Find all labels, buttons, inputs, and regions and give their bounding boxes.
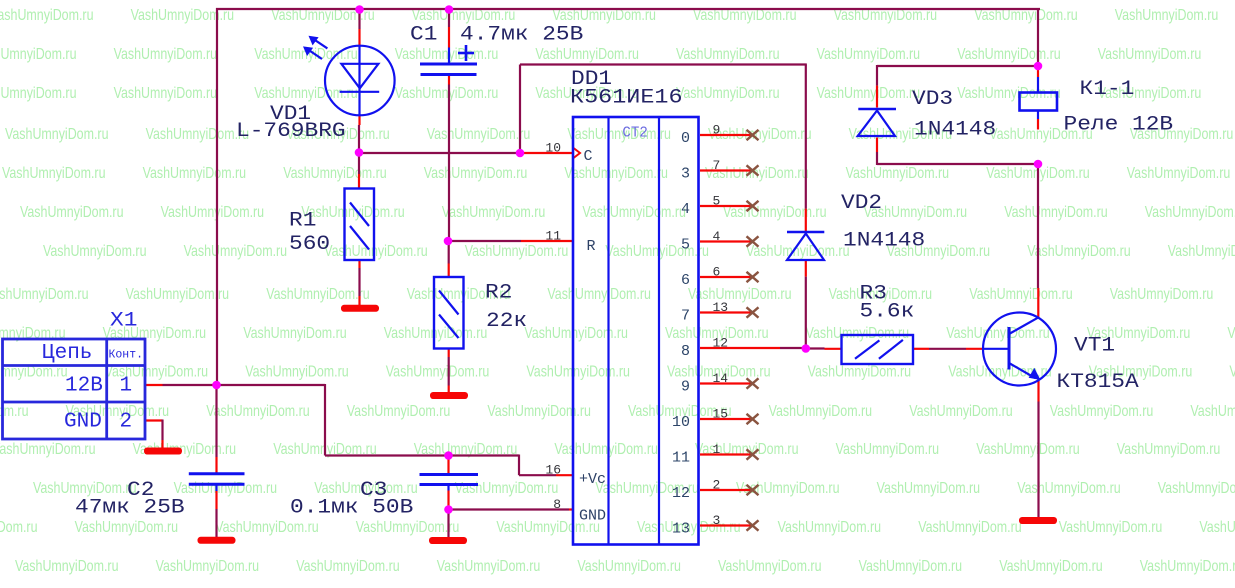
svg-text:VashUmnyiDom.ru: VashUmnyiDom.ru	[143, 165, 247, 182]
resistor R1	[345, 189, 375, 261]
svg-text:VashUmnyiDom.ru: VashUmnyiDom.ru	[1017, 480, 1120, 497]
svg-text:VashUmnyiDom.ru: VashUmnyiDom.ru	[1229, 364, 1235, 381]
node D output8/VD2/R3	[802, 344, 811, 353]
wire left rail	[216, 8, 218, 385]
IC function label CT2	[622, 125, 648, 142]
wire LED to node A	[358, 115, 361, 153]
svg-text:5: 5	[681, 237, 690, 254]
svg-text:VashUmnyiDom.ru: VashUmnyiDom.ru	[918, 519, 1022, 536]
svg-text:13: 13	[672, 521, 690, 538]
pin number 2	[713, 478, 721, 493]
output 13 label	[672, 521, 690, 538]
wire node A to node B horizontal	[359, 152, 520, 154]
label pin 1 cell	[120, 375, 133, 398]
label K1-1	[1080, 78, 1135, 101]
no-connect X on output 4	[747, 201, 759, 211]
svg-text:VashUmnyiDom.ru: VashUmnyiDom.ru	[442, 204, 546, 221]
svg-text:VashUmnyiDom.ru: VashUmnyiDom.ru	[356, 519, 460, 536]
svg-text:VT1: VT1	[1074, 335, 1115, 358]
output 12 stub wire	[700, 489, 752, 491]
svg-text:VashUmnyiDom.ru: VashUmnyiDom.ru	[1127, 165, 1231, 182]
svg-text:0.1мк 50В: 0.1мк 50В	[290, 497, 413, 520]
output 12 label	[672, 485, 690, 502]
svg-text:VashUmnyiDom.ru: VashUmnyiDom.ru	[395, 85, 499, 102]
svg-text:VashUmnyiDom.ru: VashUmnyiDom.ru	[455, 480, 559, 497]
svg-text:VashUmnyiDom.ru: VashUmnyiDom.ru	[1110, 286, 1214, 303]
svg-text:VashUmnyiDom.ru: VashUmnyiDom.ru	[20, 204, 124, 221]
svg-text:VashUmnyiDom.ru: VashUmnyiDom.ru	[245, 364, 349, 381]
wire VD3 lower lead	[876, 138, 878, 166]
svg-text:R: R	[587, 238, 596, 255]
svg-text:VashUmnyiDom.ru: VashUmnyiDom.ru	[1227, 325, 1235, 342]
output 9 stub wire	[700, 382, 752, 384]
svg-text:VashUmnyiDom.ru: VashUmnyiDom.ru	[283, 165, 387, 182]
svg-text:VashUmnyiDom.ru: VashUmnyiDom.ru	[1098, 46, 1202, 63]
svg-text:C: C	[584, 148, 593, 165]
svg-text:2: 2	[120, 411, 133, 434]
svg-text:VashUmnyiDom.ru: VashUmnyiDom.ru	[0, 7, 94, 24]
svg-text:К561ИЕ16: К561ИЕ16	[570, 87, 683, 110]
label C3 value	[290, 497, 413, 520]
label relay type	[1064, 114, 1174, 137]
svg-text:VashUmnyiDom.ru: VashUmnyiDom.ru	[254, 85, 358, 102]
wire R3 to VT1 base	[913, 348, 984, 350]
pin label +Vc	[579, 471, 606, 488]
svg-text:VashUmnyiDom.ru: VashUmnyiDom.ru	[0, 46, 77, 63]
svg-text:VashUmnyiDom.ru: VashUmnyiDom.ru	[0, 403, 29, 420]
svg-text:16: 16	[545, 463, 561, 478]
wire node D to R3	[806, 347, 842, 349]
svg-text:VashUmnyiDom.ru: VashUmnyiDom.ru	[778, 519, 882, 536]
svg-text:VashUmnyiDom.ru: VashUmnyiDom.ru	[1158, 480, 1235, 497]
diode VD2 1N4148	[787, 232, 824, 260]
output 13 stub wire	[700, 524, 752, 526]
pin label R	[587, 238, 596, 255]
wire node B riser	[519, 65, 521, 154]
svg-text:VashUmnyiDom.ru: VashUmnyiDom.ru	[817, 46, 921, 63]
wire VD2 upper lead	[805, 65, 807, 232]
output 0 stub wire	[700, 134, 752, 136]
svg-text:VashUmnyiDom.ru: VashUmnyiDom.ru	[75, 519, 179, 536]
svg-text:6: 6	[681, 272, 690, 289]
svg-text:VashUmnyiDom.ru: VashUmnyiDom.ru	[688, 286, 792, 303]
svg-text:22к: 22к	[486, 310, 527, 333]
ground under X1 pin2	[144, 448, 182, 455]
wire top rail	[216, 8, 1040, 10]
svg-text:VashUmnyiDom.ru: VashUmnyiDom.ru	[1140, 558, 1235, 575]
svg-text:560: 560	[289, 233, 330, 256]
ground under R1	[341, 305, 379, 312]
svg-text:VashUmnyiDom.ru: VashUmnyiDom.ru	[808, 364, 912, 381]
svg-text:VashUmnyiDom.ru: VashUmnyiDom.ru	[243, 325, 347, 342]
svg-text:VashUmnyiDom.ru: VashUmnyiDom.ru	[1115, 7, 1219, 24]
label R3	[860, 283, 887, 306]
pin number 4	[713, 229, 721, 244]
no-connect X on output 7	[747, 307, 759, 317]
svg-text:VashUmnyiDom.ru: VashUmnyiDom.ru	[535, 46, 639, 63]
label X1	[110, 310, 137, 333]
no-connect X on output 0	[747, 130, 759, 140]
LED VD1	[303, 36, 395, 116]
ground under C3	[429, 537, 467, 544]
svg-text:VashUmnyiDom.ru: VashUmnyiDom.ru	[487, 403, 591, 420]
pin number 15	[713, 407, 729, 422]
output 10 stub wire	[700, 418, 752, 420]
svg-text:К1-1: К1-1	[1080, 78, 1135, 101]
svg-text:4: 4	[681, 201, 690, 218]
ground under C2	[198, 537, 236, 544]
svg-text:Конт.: Конт.	[109, 349, 144, 362]
wire LED branch upper	[358, 9, 360, 46]
svg-text:VashUmnyiDom.ru: VashUmnyiDom.ru	[0, 441, 96, 458]
svg-text:VashUmnyiDom.ru: VashUmnyiDom.ru	[877, 480, 981, 497]
connector X1 table	[3, 339, 146, 439]
label C1	[410, 24, 437, 47]
svg-text:VashUmnyiDom.ru: VashUmnyiDom.ru	[547, 286, 651, 303]
svg-text:VashUmnyiDom.ru: VashUmnyiDom.ru	[1199, 519, 1235, 536]
output 11 stub wire	[700, 453, 752, 455]
pin number 11	[545, 229, 561, 244]
resistor R3	[842, 335, 914, 364]
wire pin12 output to node D	[700, 347, 806, 349]
svg-text:СТ2: СТ2	[622, 125, 648, 142]
svg-text:VashUmnyiDom.ru: VashUmnyiDom.ru	[946, 325, 1049, 342]
wire pin16 +Vc stub	[556, 474, 573, 476]
svg-text:VashUmnyiDom.ru: VashUmnyiDom.ru	[577, 558, 681, 575]
svg-text:7: 7	[681, 308, 690, 325]
svg-text:VashUmnyiDom.ru: VashUmnyiDom.ru	[324, 243, 428, 260]
svg-text:VashUmnyiDom.ru: VashUmnyiDom.ru	[1050, 403, 1154, 420]
svg-text:VashUmnyiDom.ru: VashUmnyiDom.ru	[156, 558, 260, 575]
svg-text:3: 3	[681, 166, 690, 183]
label 12V cell	[65, 375, 103, 398]
svg-text:1N4148: 1N4148	[914, 119, 996, 142]
svg-text:+Vc: +Vc	[579, 471, 606, 488]
wire right rail upper	[1037, 8, 1039, 66]
pin number 8	[553, 497, 561, 512]
wire VD3 upper lead	[876, 65, 878, 108]
svg-text:R1: R1	[289, 210, 316, 233]
svg-text:КТ815А: КТ815А	[1057, 371, 1139, 394]
IC DD1 K561IE16 body	[573, 117, 699, 545]
svg-text:10: 10	[545, 141, 561, 156]
svg-text:1N4148: 1N4148	[843, 230, 925, 253]
svg-text:VashUmnyiDom.ru: VashUmnyiDom.ru	[114, 46, 218, 63]
relay coil K1-1	[1020, 93, 1058, 111]
wire R1 upper lead	[358, 155, 360, 189]
svg-text:VashUmnyiDom.ru: VashUmnyiDom.ru	[676, 85, 780, 102]
no-connect X on output 11	[747, 449, 759, 459]
output 11 label	[672, 450, 690, 467]
wire C3 node to ground	[447, 511, 449, 537]
svg-text:12В: 12В	[65, 375, 103, 398]
pin number 3	[713, 513, 721, 528]
svg-text:R2: R2	[485, 282, 512, 305]
diode VD3 1N4148	[858, 109, 896, 136]
pin number 13	[713, 300, 729, 315]
node 12V at left rail	[212, 381, 221, 390]
label VD1 type	[236, 120, 346, 143]
wire VD2 lower lead	[805, 261, 807, 349]
label DD1 type	[570, 87, 683, 110]
no-connect X on output 9	[747, 378, 759, 388]
label R3 value	[860, 301, 915, 324]
node C3 top	[444, 451, 453, 460]
wire X1 pin2 stub to ground	[145, 420, 163, 449]
wire C3 upper lead	[447, 456, 449, 474]
svg-text:VashUmnyiDom.ru: VashUmnyiDom.ru	[817, 85, 921, 102]
output 9 label	[681, 379, 690, 396]
svg-text:VashUmnyiDom.ru: VashUmnyiDom.ru	[567, 126, 671, 143]
svg-text:VashUmnyiDom.ru: VashUmnyiDom.ru	[427, 126, 531, 143]
svg-text:VashUmnyiDom.ru: VashUmnyiDom.ru	[676, 46, 780, 63]
label R1 value	[289, 233, 330, 256]
capacitor C1	[420, 45, 477, 85]
output 8 label	[681, 343, 690, 360]
wire pin10 C input	[524, 152, 573, 154]
svg-text:VashUmnyiDom.ru: VashUmnyiDom.ru	[554, 441, 658, 458]
label DD1	[571, 68, 612, 91]
svg-text:VashUmnyiDom.ru: VashUmnyiDom.ru	[15, 558, 119, 575]
pin number 10	[545, 141, 561, 156]
svg-text:1: 1	[120, 375, 133, 398]
pin label C	[584, 148, 593, 165]
output 7 label	[681, 308, 690, 325]
pin number 12	[713, 336, 729, 351]
output 3 stub wire	[700, 169, 752, 171]
pin number 9	[713, 123, 721, 138]
svg-text:VashUmnyiDom.ru: VashUmnyiDom.ru	[1004, 204, 1107, 221]
svg-text:VashUmnyiDom.ru: VashUmnyiDom.ru	[424, 165, 528, 182]
svg-text:VD2: VD2	[841, 192, 882, 215]
wire C1 branch upper	[448, 9, 450, 48]
pin number 14	[713, 371, 729, 386]
svg-text:VashUmnyiDom.ru: VashUmnyiDom.ru	[0, 286, 89, 303]
output 5 stub wire	[700, 240, 752, 242]
pin label GND	[579, 508, 606, 525]
svg-text:11: 11	[672, 450, 690, 467]
svg-text:VashUmnyiDom.ru: VashUmnyiDom.ru	[1027, 243, 1131, 260]
svg-text:VashUmnyiDom.ru: VashUmnyiDom.ru	[1117, 441, 1221, 458]
node relay bottom / VD3	[1034, 160, 1043, 169]
ground under R2	[430, 392, 468, 399]
svg-text:12: 12	[713, 336, 729, 351]
transistor VT1 KT815A	[983, 313, 1056, 386]
wire relay to VT1 collector	[1037, 164, 1040, 318]
svg-text:VashUmnyiDom.ru: VashUmnyiDom.ru	[836, 441, 940, 458]
svg-text:VashUmnyiDom.ru: VashUmnyiDom.ru	[564, 165, 668, 182]
svg-text:8: 8	[681, 343, 690, 360]
wire R1 lower lead to ground	[358, 260, 360, 305]
wire top feed to VD2	[520, 63, 807, 65]
svg-text:VashUmnyiDom.ru: VashUmnyiDom.ru	[384, 325, 488, 342]
wire R2 lower lead to ground	[448, 349, 450, 393]
svg-text:VashUmnyiDom.ru: VashUmnyiDom.ru	[215, 519, 319, 536]
svg-text:VashUmnyiDom.ru: VashUmnyiDom.ru	[43, 243, 147, 260]
output 0 label	[681, 130, 690, 147]
node relay top / VD3	[1034, 62, 1043, 71]
svg-text:VashUmnyiDom.ru: VashUmnyiDom.ru	[976, 441, 1079, 458]
pin number 5	[713, 194, 721, 209]
wire VD3 loop bottom	[877, 163, 1038, 165]
label VD3 type	[914, 119, 996, 142]
svg-text:VashUmnyiDom.ru: VashUmnyiDom.ru	[806, 325, 910, 342]
svg-text:VashUmnyiDom.ru: VashUmnyiDom.ru	[1190, 403, 1235, 420]
svg-text:GND: GND	[579, 508, 606, 525]
no-connect X on output 10	[747, 414, 759, 424]
label C2	[127, 479, 154, 502]
wire C1 lower to node C	[448, 85, 450, 242]
label Tsep header	[42, 342, 92, 365]
svg-text:VashUmnyiDom.ru: VashUmnyiDom.ru	[395, 46, 499, 63]
no-connect X on output 13	[747, 520, 759, 530]
svg-text:VashUmnyiDom.ru: VashUmnyiDom.ru	[1059, 519, 1163, 536]
output 4 label	[681, 201, 690, 218]
pin number 16	[545, 463, 561, 478]
label R2 value	[486, 310, 527, 333]
label VD1	[270, 103, 311, 126]
label C3	[360, 479, 387, 502]
label VD3	[912, 88, 953, 111]
svg-text:VashUmnyiDom.ru: VashUmnyiDom.ru	[526, 364, 630, 381]
pin number 7	[713, 158, 721, 173]
capacitor C2	[189, 474, 245, 485]
no-connect X on output 12	[747, 485, 759, 495]
svg-text:VashUmnyiDom.ru: VashUmnyiDom.ru	[126, 286, 230, 303]
svg-text:VashUmnyiDom.ru: VashUmnyiDom.ru	[605, 243, 709, 260]
svg-text:VashUmnyiDom.ru: VashUmnyiDom.ru	[161, 204, 265, 221]
svg-text:VashUmnyiDom.ru: VashUmnyiDom.ru	[1168, 243, 1235, 260]
svg-text:VashUmnyiDom.ru: VashUmnyiDom.ru	[1145, 204, 1235, 221]
wire node C to pin11 R input	[448, 240, 573, 242]
svg-text:VashUmnyiDom.ru: VashUmnyiDom.ru	[718, 558, 822, 575]
label R2	[485, 282, 512, 305]
output 7 stub wire	[700, 311, 752, 313]
wire R2 upper lead	[448, 243, 450, 277]
svg-text:X1: X1	[110, 310, 137, 333]
svg-text:VashUmnyiDom.ru: VashUmnyiDom.ru	[184, 243, 288, 260]
node A LED/R1	[355, 148, 364, 157]
wire VT1 emitter to ground	[1037, 379, 1039, 517]
node C3 bottom / GND pin	[444, 505, 453, 514]
wire left rail to C2	[215, 385, 217, 473]
svg-text:VashUmnyiDom.ru: VashUmnyiDom.ru	[33, 480, 137, 497]
svg-text:47мк 25В: 47мк 25В	[75, 497, 185, 520]
wire VD3 loop top	[877, 65, 1038, 67]
label R1	[289, 210, 316, 233]
svg-text:VashUmnyiDom.ru: VashUmnyiDom.ru	[206, 403, 310, 420]
output 6 label	[681, 272, 690, 289]
svg-text:VashUmnyiDom.ru: VashUmnyiDom.ru	[114, 85, 218, 102]
svg-text:VashUmnyiDom.ru: VashUmnyiDom.ru	[146, 126, 250, 143]
svg-text:VashUmnyiDom.ru: VashUmnyiDom.ru	[969, 286, 1072, 303]
node B clock feed	[516, 149, 525, 158]
output 5 label	[681, 237, 690, 254]
svg-text:8: 8	[553, 497, 561, 512]
svg-text:VashUmnyiDom.ru: VashUmnyiDom.ru	[386, 364, 490, 381]
ground under VT1	[1019, 517, 1057, 524]
wire pin8 GND stub	[449, 508, 574, 510]
wire relay upper lead	[1037, 67, 1039, 93]
svg-text:VashUmnyiDom.ru: VashUmnyiDom.ru	[437, 558, 541, 575]
output 4 stub wire	[700, 205, 752, 207]
svg-text:VashUmnyiDom.ru: VashUmnyiDom.ru	[859, 558, 963, 575]
svg-text:VashUmnyiDom.ru: VashUmnyiDom.ru	[174, 480, 278, 497]
wire X1 pin1 stub	[145, 384, 217, 386]
no-connect X on output 5	[747, 236, 759, 246]
svg-text:5.6к: 5.6к	[860, 301, 915, 324]
svg-text:12: 12	[672, 485, 690, 502]
svg-text:VashUmnyiDom.ru: VashUmnyiDom.ru	[5, 126, 109, 143]
svg-text:VashUmnyiDom.ru: VashUmnyiDom.ru	[296, 558, 400, 575]
svg-text:11: 11	[545, 229, 561, 244]
svg-text:VashUmnyiDom.ru: VashUmnyiDom.ru	[846, 165, 950, 182]
output 6 stub wire	[700, 276, 752, 278]
label VD2 type	[843, 230, 925, 253]
svg-text:VashUmnyiDom.ru: VashUmnyiDom.ru	[465, 243, 569, 260]
svg-text:L-769BRG: L-769BRG	[236, 120, 346, 143]
clock input chevron	[574, 148, 581, 158]
svg-text:VashUmnyiDom.ru: VashUmnyiDom.ru	[957, 46, 1060, 63]
output 10 label	[672, 414, 690, 431]
svg-text:VashUmnyiDom.ru: VashUmnyiDom.ru	[0, 85, 77, 102]
label VT1	[1074, 335, 1115, 358]
label pin 2 cell	[120, 411, 133, 434]
pin number 1	[713, 442, 721, 457]
svg-text:VashUmnyiDom.ru: VashUmnyiDom.ru	[266, 286, 370, 303]
node junction at LED top rail	[355, 5, 364, 14]
node C reset/C1/R2	[444, 237, 453, 246]
capacitor C3	[420, 475, 479, 485]
pin number 6	[713, 265, 721, 280]
svg-text:VashUmnyiDom.ru: VashUmnyiDom.ru	[0, 519, 38, 536]
no-connect X on output 6	[747, 272, 759, 282]
label VT1 type	[1057, 371, 1139, 394]
wire C3 lower lead	[447, 486, 449, 508]
svg-text:GND: GND	[64, 411, 102, 434]
wire relay lower lead	[1037, 111, 1039, 130]
output 3 label	[681, 166, 690, 183]
wire 12V run to +Vc	[217, 384, 557, 475]
no-connect X on output 3	[747, 165, 759, 175]
svg-text:4.7мк 25В: 4.7мк 25В	[460, 24, 583, 47]
svg-text:VashUmnyiDom.ru: VashUmnyiDom.ru	[582, 204, 686, 221]
label C2 value	[75, 497, 185, 520]
label Kont header	[109, 349, 144, 362]
svg-text:10: 10	[672, 414, 690, 431]
svg-text:VD3: VD3	[912, 88, 953, 111]
wire C2 lower lead to ground	[215, 486, 217, 538]
label VD2	[841, 192, 882, 215]
label GND cell	[64, 411, 102, 434]
svg-text:0: 0	[681, 130, 690, 147]
resistor R2	[434, 277, 464, 349]
svg-text:Реле 12В: Реле 12В	[1064, 114, 1174, 137]
svg-text:VashUmnyiDom.ru: VashUmnyiDom.ru	[524, 325, 628, 342]
svg-text:VashUmnyiDom.ru: VashUmnyiDom.ru	[769, 403, 873, 420]
svg-text:Цепь: Цепь	[42, 342, 92, 365]
svg-text:9: 9	[681, 379, 690, 396]
svg-text:VashUmnyiDom.ru: VashUmnyiDom.ru	[347, 403, 451, 420]
svg-text:VashUmnyiDom.ru: VashUmnyiDom.ru	[909, 403, 1013, 420]
svg-text:C1: C1	[410, 24, 437, 47]
label C1 value	[460, 24, 583, 47]
node junction at C1 top rail	[445, 5, 454, 14]
svg-text:VashUmnyiDom.ru: VashUmnyiDom.ru	[999, 558, 1102, 575]
svg-text:VashUmnyiDom.ru: VashUmnyiDom.ru	[2, 165, 106, 182]
